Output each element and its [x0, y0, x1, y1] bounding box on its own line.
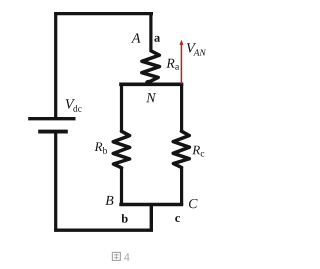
label node B	[105, 196, 113, 205]
resistor Rb	[113, 131, 130, 168]
label terminal a	[154, 36, 160, 42]
label R_a	[166, 59, 179, 70]
wire: left branch lower (Rb to node B)	[120, 167, 123, 205]
resistor Ra	[142, 51, 160, 83]
junction: Ra tail at node N	[145, 80, 152, 85]
label node A	[131, 33, 140, 42]
label R_b	[95, 142, 108, 153]
label R_c	[192, 146, 204, 157]
caption ideogram (figure label box glyph)	[112, 252, 120, 260]
wire: battery negative down to bottom wire	[54, 132, 57, 232]
wire: right branch lower (Rc to node C)	[180, 167, 183, 205]
wire: node a drop from top wire into resistor Ra	[149, 12, 152, 52]
label V_dc (battery voltage)	[66, 99, 82, 111]
wire: left vertical from top-left corner down to battery positive plate	[54, 12, 57, 117]
battery V_dc positive plate (long)	[28, 117, 75, 120]
arrow V_AN shaft (red)	[180, 44, 182, 85]
wire: center drop from bottom bus	[150, 204, 153, 232]
label terminal b	[121, 214, 127, 223]
wire: bottom horizontal back to battery	[54, 228, 153, 231]
wire: bottom bus (node B to node C)	[119, 203, 183, 207]
wire: top bus (node N)	[119, 83, 183, 87]
battery V_dc negative plate (short)	[38, 130, 68, 134]
wire: left branch upper (N to Rb)	[120, 84, 123, 132]
resistor Rc	[173, 131, 189, 167]
label node N	[146, 93, 156, 102]
wire: top horizontal	[54, 12, 153, 15]
label node C	[189, 199, 198, 208]
label V_AN (voltage arrow)	[187, 43, 206, 55]
arrow V_AN head (red, pointing up)	[179, 40, 183, 45]
wire: right branch upper (N to Rc)	[180, 84, 183, 132]
label terminal c	[175, 216, 180, 222]
caption figure number 4	[124, 253, 130, 261]
